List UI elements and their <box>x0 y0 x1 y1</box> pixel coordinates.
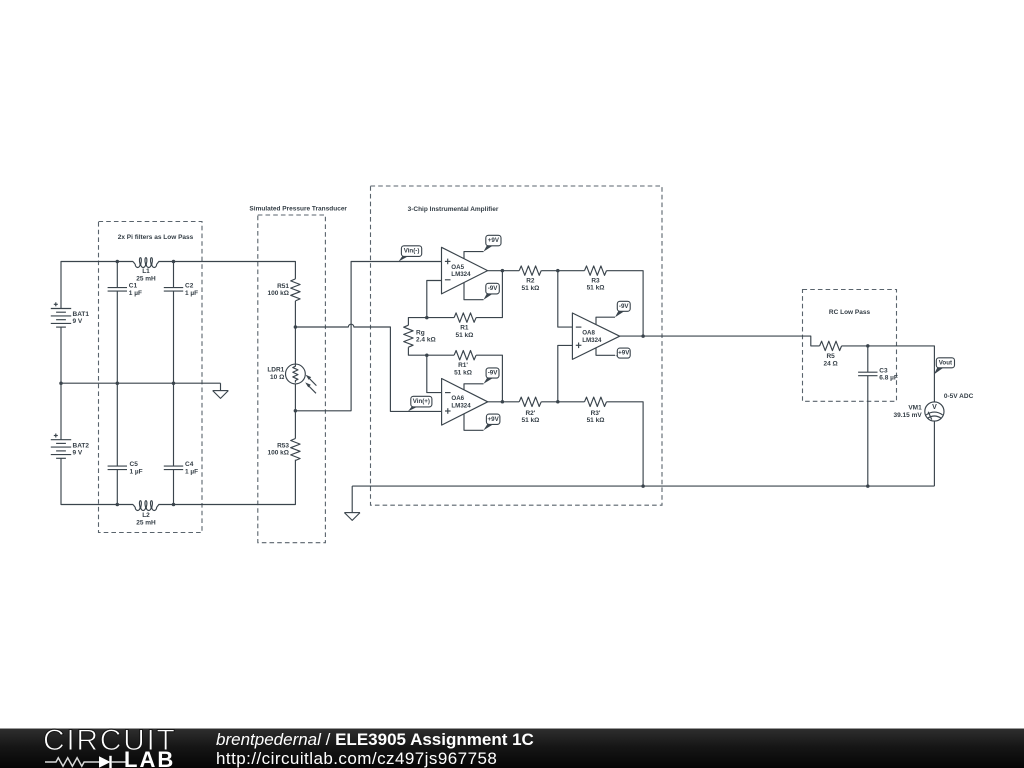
wire: junction to Rg top <box>408 318 426 326</box>
svg-text:1 µF: 1 µF <box>185 290 198 297</box>
wire: C4 bottom lead <box>173 470 175 505</box>
svg-text:51 kΩ: 51 kΩ <box>454 370 472 377</box>
inductor L1 <box>133 258 159 268</box>
wire: C5 bottom lead <box>116 470 118 505</box>
svg-text:51 kΩ: 51 kΩ <box>521 417 539 424</box>
svg-text:LM324: LM324 <box>451 402 471 409</box>
svg-text:+9V: +9V <box>618 350 630 357</box>
battery BAT1 <box>51 302 71 327</box>
wire: OA8 V- supply pin <box>596 317 615 325</box>
svg-text:V: V <box>932 404 937 411</box>
wire: C2 bottom lead <box>173 291 175 383</box>
wire: OA8 V+ supply pin <box>596 348 615 356</box>
wire: C3 bottom lead <box>867 376 869 486</box>
capacitor C4 <box>164 466 183 470</box>
svg-text:100 kΩ: 100 kΩ <box>268 290 289 297</box>
resistor R5 <box>820 341 842 350</box>
wire: junction to R1 <box>427 317 454 319</box>
wire: OA5 V- supply pin <box>464 283 484 300</box>
wire: OA8 output to R5 <box>620 336 820 346</box>
wire: ground rail <box>352 485 934 487</box>
svg-text:VM1: VM1 <box>908 404 922 411</box>
wire: OA5 V+ supply pin <box>464 252 484 259</box>
op-amp OA8 <box>572 313 619 359</box>
svg-text:Simulated Pressure Transducer: Simulated Pressure Transducer <box>249 205 347 212</box>
svg-text:R2: R2 <box>526 278 535 285</box>
resistor Rg <box>404 325 413 347</box>
svg-text:OA5: OA5 <box>451 264 464 271</box>
svg-text:RC Low Pass: RC Low Pass <box>829 309 871 316</box>
wire: C1 top lead <box>116 262 118 288</box>
wire: R2 to R3 <box>541 270 584 272</box>
svg-text:Vin(+): Vin(+) <box>413 398 430 405</box>
wire: OA6 V- supply pin <box>464 384 484 390</box>
node: junction C2/top rail <box>172 260 176 264</box>
svg-text:51 kΩ: 51 kΩ <box>455 332 473 339</box>
wire: OA5 - input to R1/Rg junction <box>427 281 442 318</box>
node: junction R3/OA8 output <box>641 334 645 338</box>
node: junction R2p/R3p/OA8+ <box>556 400 560 404</box>
node +9V flag (OA8) <box>615 348 630 358</box>
svg-text:39.15 mV: 39.15 mV <box>894 412 923 419</box>
svg-text:9 V: 9 V <box>73 449 83 456</box>
wire: mid rail to ground <box>61 382 221 384</box>
svg-text:25 mH: 25 mH <box>136 519 156 526</box>
svg-text:-9V: -9V <box>488 370 499 377</box>
wire: BAT1 top to +9V rail (left of L1) <box>61 262 133 309</box>
svg-text:Vin(-): Vin(-) <box>404 248 420 255</box>
capacitor C5 <box>108 466 127 470</box>
wire: Rg bottom to junction <box>408 347 426 355</box>
node: region box - Simulated Pressure Transducer <box>258 215 326 543</box>
svg-text:1 µF: 1 µF <box>130 468 143 475</box>
svg-text:51 kΩ: 51 kΩ <box>587 417 605 424</box>
svg-text:51 kΩ: 51 kΩ <box>587 285 605 292</box>
wire: OA6 output to R2p <box>488 401 520 403</box>
svg-text:-9V: -9V <box>488 285 499 292</box>
wire: R2/R3 junction to OA8 - input <box>558 271 573 327</box>
wire: +9V rail L1 to R51 <box>159 262 296 279</box>
CircuitLab logo <box>44 730 184 768</box>
capacitor C2 <box>164 288 183 292</box>
node +9V flag (OA5) <box>484 235 502 251</box>
svg-text:1 µF: 1 µF <box>185 468 198 475</box>
wire: C5 top lead <box>116 383 118 466</box>
svg-text:Vout: Vout <box>939 359 952 366</box>
wire: VM1 to ground rail <box>933 421 935 486</box>
svg-text:2.4 kΩ: 2.4 kΩ <box>416 337 436 344</box>
op-amp OA6 <box>442 379 488 426</box>
svg-text:BAT1: BAT1 <box>73 311 90 318</box>
node: junction LDR1/R53 (Vin- net) <box>294 409 298 413</box>
svg-text:R2': R2' <box>525 410 535 417</box>
svg-text:C2: C2 <box>185 283 194 290</box>
svg-text:LDR1: LDR1 <box>267 367 284 374</box>
node Vin(+) flag <box>408 396 432 411</box>
wire: R1 to OA5 output node <box>476 271 502 318</box>
svg-text:51 kΩ: 51 kΩ <box>521 285 539 292</box>
wire: -9V rail L2 to R53 <box>159 460 296 505</box>
node: region box - RC Low Pass <box>803 290 897 402</box>
wire: R3 to OA8 output node <box>607 271 644 336</box>
svg-text:9 V: 9 V <box>73 318 83 325</box>
svg-text:R53: R53 <box>277 442 289 449</box>
wire: BAT2 bottom to -9V rail (left of L2) <box>61 458 133 504</box>
svg-text:LM324: LM324 <box>451 271 471 278</box>
wire: OA5 output to R2 <box>488 270 520 272</box>
battery BAT2 <box>51 434 71 459</box>
svg-text:C5: C5 <box>130 461 139 468</box>
wire: C4 top lead <box>173 383 175 466</box>
capacitor C1 <box>108 288 127 292</box>
svg-text:25 mH: 25 mH <box>136 275 156 282</box>
wire: R3p to ground rail <box>607 402 644 486</box>
svg-text:+9V: +9V <box>488 237 500 244</box>
node: junction R3p/ground rail <box>641 484 645 488</box>
op-amp OA5 <box>442 247 488 294</box>
svg-text:L2: L2 <box>142 512 150 519</box>
wire: R51 to LDR1 <box>294 301 296 364</box>
svg-text:+9V: +9V <box>488 416 500 423</box>
wire: LDR1 to R53 <box>294 384 296 439</box>
node: junction R5/C3 <box>866 344 870 348</box>
resistor R51 <box>291 279 300 301</box>
svg-text:R5: R5 <box>826 353 835 360</box>
resistor R53 <box>291 439 300 461</box>
svg-text:C3: C3 <box>879 368 888 375</box>
svg-text:OA6: OA6 <box>451 395 464 402</box>
node: junction Rg/R1p/OA6- <box>425 353 429 357</box>
resistor R3' <box>585 397 607 406</box>
svg-text:1 µF: 1 µF <box>129 290 142 297</box>
node: junction Rg/R1/OA5- <box>425 316 429 320</box>
resistor R3 <box>585 266 607 275</box>
svg-text:3-Chip Instrumental Amplifier: 3-Chip Instrumental Amplifier <box>408 206 499 213</box>
resistor R1 <box>454 313 476 322</box>
wire: R2p to R3p <box>541 401 584 403</box>
capacitor C3 <box>858 372 877 376</box>
svg-text:100 kΩ: 100 kΩ <box>268 449 289 456</box>
svg-text:R3: R3 <box>591 277 600 284</box>
node: junction C5/bottom rail <box>116 503 120 507</box>
svg-text:R3': R3' <box>591 410 601 417</box>
svg-text:10 Ω: 10 Ω <box>270 374 284 381</box>
node: region box - 2x Pi filters as Low Pass <box>99 222 203 533</box>
svg-text:OA8: OA8 <box>582 330 595 337</box>
node +9V flag (OA6) <box>484 414 500 430</box>
photoresistor LDR1 <box>286 364 317 393</box>
node: region box - 3-Chip Instrumental Amplifier <box>371 186 663 505</box>
resistor R2 <box>519 266 541 275</box>
wire: C1 bottom lead <box>116 291 118 383</box>
node: junction C1-C5/mid rail <box>116 381 120 385</box>
node -9V flag (OA6) <box>484 368 500 384</box>
node -9V flag (OA8) <box>615 301 630 317</box>
wire: R51/LDR1 junction to OA6 + input (with hop) <box>295 324 441 411</box>
svg-text:R1': R1' <box>458 362 468 369</box>
wire: BAT1 bottom to BAT2 top <box>60 327 62 440</box>
node: junction R51/LDR1 (Vin+ net) <box>294 325 298 329</box>
wire: OA6 V+ supply pin <box>464 414 484 431</box>
node: junction C1/top rail <box>116 260 120 264</box>
resistor R2' <box>519 397 541 406</box>
resistor R1' <box>454 351 476 360</box>
wire: R1p to OA6 output node <box>476 355 502 402</box>
node: junction R2/R3/OA8- <box>556 269 560 273</box>
wire: junction to R1p <box>427 354 454 356</box>
wire: OA6 - input to R1p/Rg junction <box>427 355 442 392</box>
node: junction C4/bottom rail <box>172 503 176 507</box>
svg-text:R1: R1 <box>460 325 469 332</box>
ground (mid rail) <box>213 383 229 398</box>
wire: C3 top lead <box>867 346 869 372</box>
node: junction C3/ground rail <box>866 484 870 488</box>
svg-text:2x Pi filters as Low Pass: 2x Pi filters as Low Pass <box>118 234 194 241</box>
wire: R5 to Vout/VM1 <box>842 346 935 402</box>
svg-text:24 Ω: 24 Ω <box>823 360 837 367</box>
svg-text:C4: C4 <box>185 461 194 468</box>
node Vin(-) flag <box>399 246 422 262</box>
voltmeter VM1 <box>925 402 944 421</box>
wire: LDR1 bottom to OA5 + input <box>295 262 441 411</box>
node: junction C2-C4/mid rail <box>172 381 176 385</box>
wire: C2 top lead <box>173 262 175 288</box>
inductor L2 <box>133 501 159 511</box>
svg-text:L1: L1 <box>142 268 150 275</box>
node: junction OA6 out/R1p/R2p <box>501 400 505 404</box>
wire: R2p/R3p junction to OA8 + input <box>558 345 573 401</box>
svg-text:6.8 µF: 6.8 µF <box>879 375 898 382</box>
svg-text:Rg: Rg <box>416 329 425 336</box>
node -9V flag (OA5) <box>484 283 500 299</box>
svg-text:C1: C1 <box>129 283 138 290</box>
node Vout flag <box>934 358 955 375</box>
ground (amplifier rail) <box>344 486 360 520</box>
svg-text:0-5V ADC: 0-5V ADC <box>944 393 974 400</box>
node: junction OA5 out/R1/R2 <box>501 269 505 273</box>
svg-text:LM324: LM324 <box>582 337 602 344</box>
svg-text:-9V: -9V <box>619 303 630 310</box>
node: junction batteries/mid rail <box>59 381 63 385</box>
